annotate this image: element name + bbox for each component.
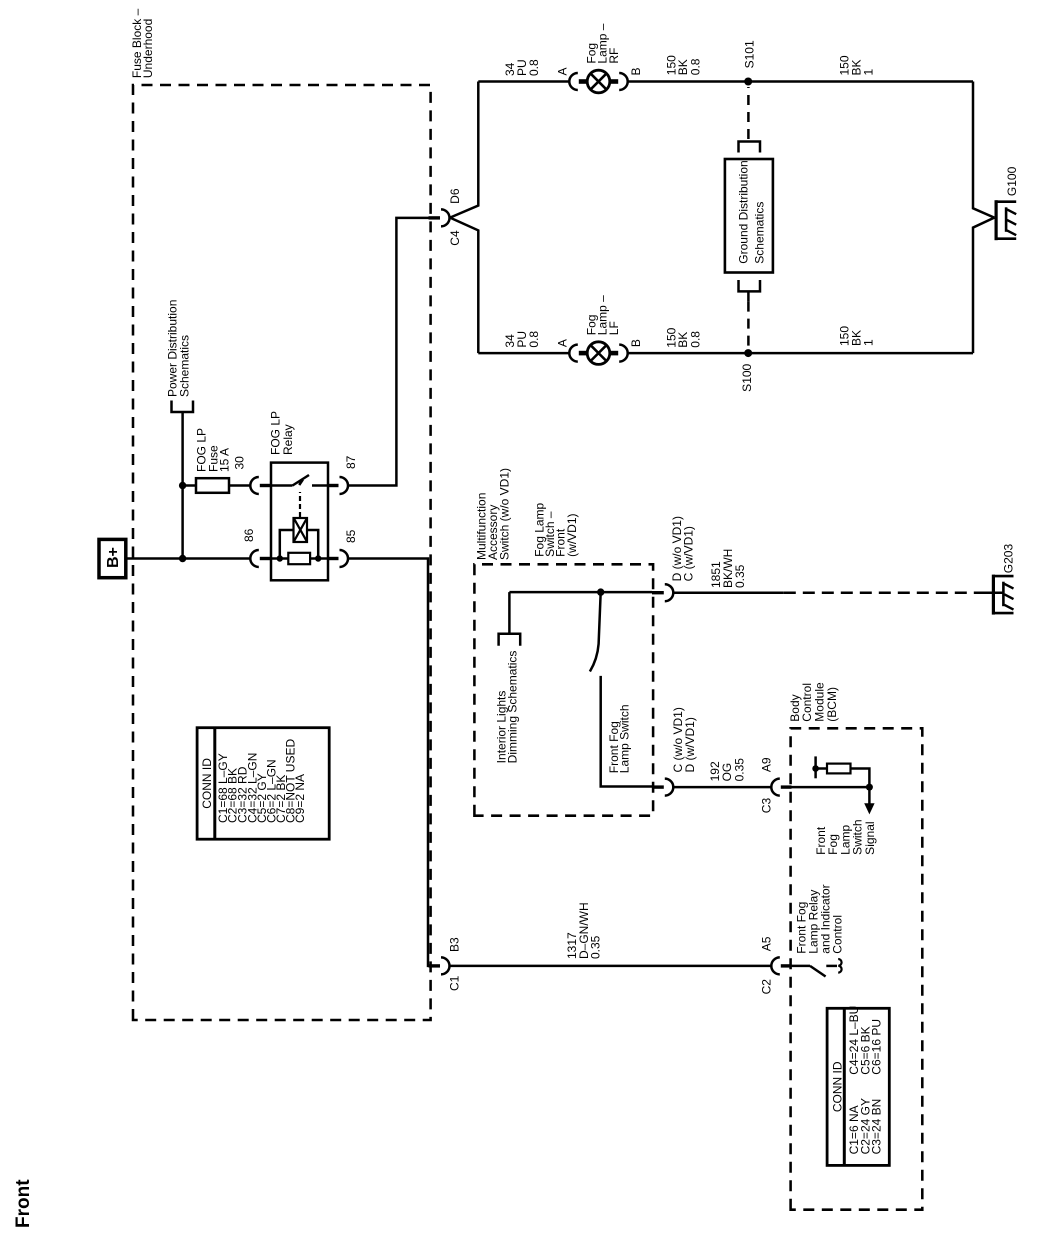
- svg-text:Signal: Signal: [863, 821, 877, 854]
- svg-text:(BCM): (BCM): [825, 687, 839, 722]
- svg-text:(w/VD1): (w/VD1): [565, 513, 579, 556]
- svg-text:G100: G100: [1005, 166, 1019, 196]
- svg-text:15 A: 15 A: [217, 448, 231, 472]
- svg-text:C3: C3: [759, 798, 773, 814]
- svg-text:1: 1: [861, 339, 875, 346]
- svg-text:Control: Control: [831, 915, 845, 954]
- svg-text:C2: C2: [759, 979, 773, 995]
- svg-text:86: 86: [242, 528, 256, 542]
- svg-text:D6: D6: [448, 188, 462, 204]
- svg-text:C3=24 BN: C3=24 BN: [869, 1099, 883, 1155]
- svg-text:0.35: 0.35: [733, 564, 747, 588]
- svg-text:Relay: Relay: [281, 424, 295, 455]
- svg-text:0.8: 0.8: [689, 58, 703, 75]
- svg-text:CONN ID: CONN ID: [831, 1061, 845, 1112]
- svg-text:Dimming Schematics: Dimming Schematics: [506, 651, 520, 764]
- svg-text:RF: RF: [607, 48, 621, 64]
- svg-text:1: 1: [861, 69, 875, 76]
- svg-text:S101: S101: [743, 40, 757, 68]
- svg-text:S100: S100: [740, 363, 754, 391]
- svg-text:D (w/VD1): D (w/VD1): [683, 717, 697, 772]
- svg-text:0.8: 0.8: [527, 331, 541, 348]
- svg-text:C1: C1: [448, 975, 462, 991]
- svg-text:B3: B3: [448, 937, 462, 952]
- svg-text:87: 87: [344, 455, 358, 469]
- svg-text:C9=2 NA: C9=2 NA: [293, 774, 307, 823]
- svg-text:G203: G203: [1002, 544, 1016, 574]
- svg-text:A: A: [556, 339, 570, 347]
- svg-text:A9: A9: [759, 757, 773, 772]
- svg-text:A5: A5: [759, 936, 773, 951]
- svg-text:Switch (w/o VD1): Switch (w/o VD1): [497, 468, 511, 560]
- svg-text:B: B: [629, 339, 643, 347]
- svg-text:Ground Distribution: Ground Distribution: [736, 160, 750, 263]
- svg-text:0.35: 0.35: [733, 758, 747, 782]
- svg-text:Schematics: Schematics: [178, 335, 192, 397]
- svg-text:85: 85: [344, 529, 358, 543]
- svg-text:A: A: [556, 67, 570, 75]
- svg-text:B+: B+: [105, 547, 122, 568]
- svg-text:Front: Front: [13, 1179, 34, 1228]
- svg-text:C6=16 PU: C6=16 PU: [869, 1019, 883, 1075]
- svg-text:Underhood: Underhood: [141, 19, 155, 78]
- svg-text:30: 30: [232, 456, 246, 470]
- svg-text:0.35: 0.35: [589, 935, 603, 959]
- svg-text:C (w/VD1): C (w/VD1): [682, 526, 696, 581]
- svg-text:C4: C4: [448, 230, 462, 246]
- svg-text:0.8: 0.8: [689, 331, 703, 348]
- svg-text:Lamp Switch: Lamp Switch: [618, 704, 632, 773]
- svg-text:Schematics: Schematics: [753, 202, 767, 264]
- svg-text:CONN ID: CONN ID: [200, 758, 214, 809]
- svg-text:LF: LF: [607, 321, 621, 335]
- svg-text:0.8: 0.8: [527, 59, 541, 76]
- svg-text:B: B: [629, 67, 643, 75]
